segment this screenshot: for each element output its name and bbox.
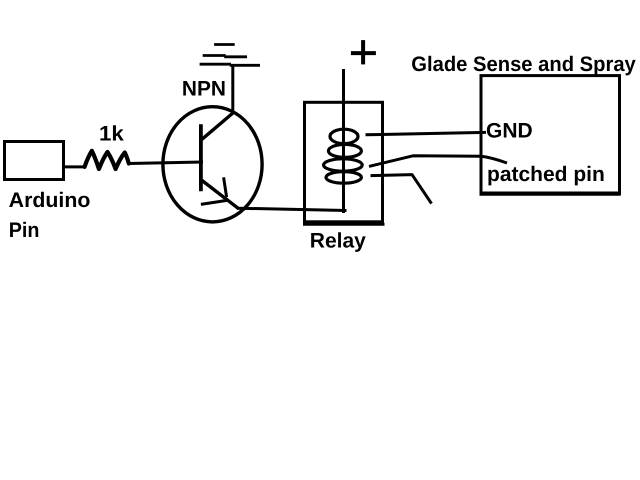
transistor emitter stroke [201,180,239,209]
relay switch contact [371,175,432,204]
relay coil L1 [324,129,363,183]
emitter arrowhead [201,177,229,204]
wire: coil bottom to patched pin [369,156,507,167]
svg-text:GND: GND [486,119,533,142]
wire: resistor to transistor base [129,162,203,164]
wire: coil top to GND pin [366,132,487,134]
Glade box bottom edge overdraw [480,193,621,196]
Arduino pin box [5,142,64,180]
relay box bottom edge overdraw [303,223,385,226]
plus supply symbol [351,40,376,64]
transistor collector stroke [201,113,234,141]
transistor base bar [199,124,203,191]
wire: collector to ground [231,65,234,114]
relay box [305,102,383,222]
wire: plus to relay coil [342,69,345,213]
wire: emitter to relay coil [237,208,347,210]
svg-text:patched pin: patched pin [487,163,605,186]
svg-text:1k: 1k [99,123,124,146]
svg-text:ArduinoPin: ArduinoPin [9,189,91,242]
ground symbol [200,45,260,66]
svg-text:Relay: Relay [310,230,366,253]
svg-text:NPN: NPN [182,77,226,100]
svg-text:Glade Sense and Spray: Glade Sense and Spray [411,53,636,76]
Glade Sense and Spray box [481,76,620,193]
transistor Q1 body circle [163,107,262,222]
resistor R1 1k [85,151,129,169]
wire: Arduino pin to resistor [63,165,85,168]
